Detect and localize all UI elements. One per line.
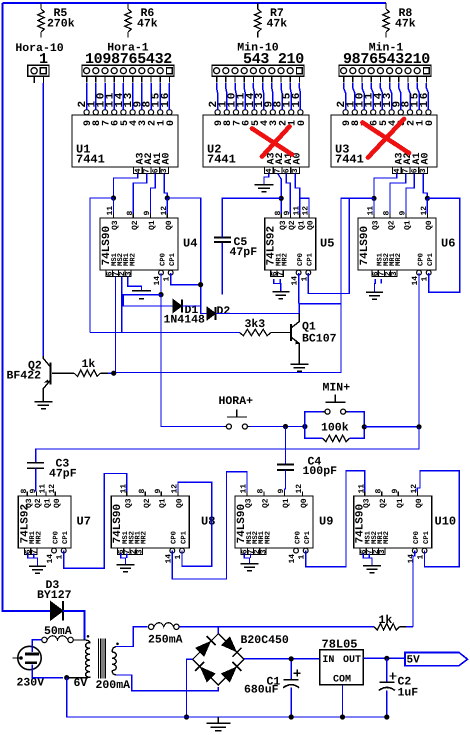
svg-text:16: 16 xyxy=(291,91,303,107)
svg-text:Q1: Q1 xyxy=(396,498,405,508)
resistor R7 xyxy=(257,3,259,9)
svg-text:CP0: CP0 xyxy=(294,531,302,544)
svg-text:CP0: CP0 xyxy=(417,253,425,266)
svg-text:BF422: BF422 xyxy=(7,370,42,383)
svg-text:IN: IN xyxy=(322,655,334,666)
svg-text:MR2: MR2 xyxy=(129,253,137,266)
svg-text:Q2: Q2 xyxy=(131,220,140,230)
ground U10 xyxy=(363,554,372,566)
svg-text:200mA: 200mA xyxy=(96,679,131,692)
wire MIN+ node to U6.CP0 line xyxy=(364,426,419,428)
wire U4.CP0 node xyxy=(160,273,162,295)
IC U7 74LS92 xyxy=(18,496,71,548)
node MIN+ / minute bus junction xyxy=(416,424,421,429)
svg-text:MR2: MR2 xyxy=(395,253,403,266)
wire U1.A0 to U4.Q0 xyxy=(164,174,167,199)
wire D3 cathode to primary top node xyxy=(63,611,84,640)
node C5 bus / U5.Q3 xyxy=(279,196,284,201)
svg-text:Q0: Q0 xyxy=(307,220,316,230)
wire U4.CP0 to HORA+ button xyxy=(161,295,224,427)
resistor R8 xyxy=(385,3,387,9)
svg-text:MIN+: MIN+ xyxy=(323,382,351,395)
svg-text:4: 4 xyxy=(265,168,274,173)
IC U3 7441 xyxy=(331,115,437,167)
svg-text:Q1: Q1 xyxy=(159,498,168,508)
svg-text:Q2: Q2 xyxy=(388,220,397,230)
svg-text:Q1: Q1 xyxy=(297,220,306,230)
svg-text:14: 14 xyxy=(288,554,297,564)
svg-text:16: 16 xyxy=(160,91,172,107)
wire minute bus xyxy=(36,427,419,463)
svg-text:47k: 47k xyxy=(137,18,158,31)
svg-text:CP1: CP1 xyxy=(427,252,435,266)
wire set line to 3k3 xyxy=(90,332,240,334)
svg-text:Q2: Q2 xyxy=(379,498,388,508)
diode D2 1N4148 xyxy=(207,307,216,320)
svg-text:HORA+: HORA+ xyxy=(219,395,254,408)
wire C5 to U4.CP0 node xyxy=(221,242,223,295)
svg-text:1k: 1k xyxy=(379,614,393,627)
svg-text:47k: 47k xyxy=(267,18,288,31)
node 78L05 OUT junction xyxy=(384,656,389,661)
ground symbol on bus xyxy=(217,717,219,723)
ground U9 xyxy=(244,554,249,564)
transistor Q1 BC107 xyxy=(290,324,292,341)
svg-text:CP0: CP0 xyxy=(52,531,60,544)
wire U4.MR2 to ground xyxy=(128,277,142,291)
svg-text:CP0: CP0 xyxy=(413,531,421,544)
svg-text:7441: 7441 xyxy=(207,153,236,167)
svg-text:U7: U7 xyxy=(77,515,91,529)
wire C4 bottom to U9.Q1 xyxy=(285,470,286,492)
svg-text:100k: 100k xyxy=(321,422,349,435)
red X over U2 xyxy=(252,127,292,157)
svg-text:Q0: Q0 xyxy=(300,498,309,508)
resistor 3k3 xyxy=(271,332,290,334)
wire U3.A0 to U6.Q0 xyxy=(423,174,427,199)
wire U2.A3 to ground xyxy=(264,174,269,185)
svg-text:9: 9 xyxy=(29,489,38,494)
svg-text:3: 3 xyxy=(378,549,387,554)
wire U6.Q3 branch to U5.CP1 cascade xyxy=(308,198,349,293)
ground U8 xyxy=(121,554,126,565)
svg-text:CP1: CP1 xyxy=(180,530,188,544)
wire U1.A2 to U4.Q2 xyxy=(133,174,146,214)
svg-text:3: 3 xyxy=(136,549,145,554)
wire HV top bus xyxy=(3,2,387,4)
ground U7 xyxy=(28,554,38,567)
svg-text:Q0: Q0 xyxy=(425,220,434,230)
capacitor C1 680uF xyxy=(290,659,292,680)
svg-text:4: 4 xyxy=(393,168,402,173)
resistor 1k (Q2 base) xyxy=(52,372,74,374)
wire C5 top to U5.Q3 bus xyxy=(222,198,281,237)
svg-text:U6: U6 xyxy=(441,237,455,251)
wire U3.A3 to U6.Q3 xyxy=(374,174,397,199)
wire U1.A3 to U4.Q3 xyxy=(114,174,138,199)
resistor 1k (50 Hz feed) xyxy=(374,624,399,630)
capacitor C4 100pF xyxy=(277,465,294,471)
wire U9.Q3 to U8.CP0 cascade xyxy=(172,472,247,579)
ground Q1 emitter xyxy=(290,364,308,371)
wire U1.A1 to U4.Q1 xyxy=(151,174,156,214)
bridge diode top-right xyxy=(221,636,237,652)
wire U4.CP1 to Q0 feedback line xyxy=(171,273,201,285)
svg-text:Q1: Q1 xyxy=(282,498,291,508)
svg-text:Q2: Q2 xyxy=(262,498,271,508)
svg-text:8: 8 xyxy=(138,489,147,494)
svg-text:CP1: CP1 xyxy=(62,530,70,544)
svg-text:1N4148: 1N4148 xyxy=(164,314,206,327)
wire U2.A0 to U5.Q1 xyxy=(295,174,300,214)
wire U8.Q3 to U7.CP1 cascade xyxy=(64,474,127,569)
svg-text:A0: A0 xyxy=(162,152,173,164)
svg-text:Q0: Q0 xyxy=(176,498,185,508)
wire U10.CP0 to 1k 50Hz xyxy=(413,551,415,627)
wire U10.Q0 to U10.CP1 feedback xyxy=(417,471,459,567)
svg-text:3: 3 xyxy=(160,168,169,173)
bridge diode top-left xyxy=(195,641,211,657)
svg-text:7: 7 xyxy=(277,271,286,276)
wires Min-10 to U2 xyxy=(217,83,218,110)
IC U8 74LS90 xyxy=(111,496,189,548)
IC U1 7441 xyxy=(72,115,178,167)
ground U6 xyxy=(374,279,377,292)
node 6V junction xyxy=(64,675,69,680)
svg-text:6: 6 xyxy=(151,168,160,173)
svg-text:5V: 5V xyxy=(407,655,421,667)
wire C3 bottom to U7.Q2 xyxy=(35,468,37,491)
svg-text:3: 3 xyxy=(390,271,399,276)
svg-text:U5: U5 xyxy=(320,237,334,251)
svg-text:7: 7 xyxy=(274,168,283,173)
svg-text:7441: 7441 xyxy=(76,153,105,167)
wires Hora-1 to U1 xyxy=(86,83,88,110)
svg-text:1k: 1k xyxy=(82,358,96,371)
svg-text:680uF: 680uF xyxy=(244,684,279,697)
svg-text:0: 0 xyxy=(425,120,436,126)
red X over U3 xyxy=(363,119,410,158)
svg-text:Q2: Q2 xyxy=(288,220,297,230)
wire U2.A1 to U5.Q2 xyxy=(286,174,290,214)
svg-text:Q3: Q3 xyxy=(111,220,120,230)
svg-text:270k: 270k xyxy=(47,18,75,31)
svg-text:CP1: CP1 xyxy=(169,252,177,266)
svg-text:U10: U10 xyxy=(435,515,457,529)
svg-text:8: 8 xyxy=(257,489,266,494)
wire bridge right vertex DC+ xyxy=(244,658,320,660)
svg-text:3k3: 3k3 xyxy=(245,318,266,331)
wire D2 cathode to Q1 collector xyxy=(216,313,300,315)
wire bridge top vertex xyxy=(217,627,219,634)
ground U2.A3 xyxy=(255,185,274,192)
bridge diode bottom-right xyxy=(221,666,237,682)
node MIN+/100k left junction xyxy=(302,424,307,429)
wire U4.MS2 to Q2 base node xyxy=(115,277,117,373)
wire bridge left vertex to ground bus xyxy=(187,659,193,717)
svg-text:7441: 7441 xyxy=(335,153,364,167)
wire Q1 emitter to ground xyxy=(298,353,300,365)
diode D1 1N4148 xyxy=(173,299,182,312)
svg-text:BY127: BY127 xyxy=(37,589,72,602)
wire D1 cathode to D2 anode xyxy=(182,306,207,314)
wire U8.Q0 to U8.CP1 feedback xyxy=(178,482,212,566)
svg-text:12: 12 xyxy=(295,484,304,494)
IC U2 7441 xyxy=(203,115,309,167)
svg-text:A0: A0 xyxy=(421,152,432,164)
wire U5.Q0 feedback to U5.CP1 xyxy=(300,198,309,213)
wire U10.Q3 to U9.CP1 cascade xyxy=(306,471,365,567)
5V output tag xyxy=(405,653,468,666)
wire C4 top xyxy=(285,427,287,465)
node bridge DC- on ground bus xyxy=(184,714,189,719)
wire MIN+ loop left xyxy=(305,412,323,427)
node U3.A3/U6.Q3 junction xyxy=(371,196,376,201)
capacitor C2 1uF xyxy=(386,658,388,682)
node U4.CP1 junction xyxy=(198,282,203,287)
wire 6V node to ground bus xyxy=(67,678,187,717)
resistor R6 xyxy=(127,3,129,9)
svg-text:Q1: Q1 xyxy=(148,220,157,230)
svg-text:9: 9 xyxy=(154,489,163,494)
resistor 100k xyxy=(305,427,323,439)
svg-text:1uF: 1uF xyxy=(398,687,419,700)
svg-text:8: 8 xyxy=(374,489,383,494)
svg-text:0: 0 xyxy=(297,120,308,126)
svg-text:47pF: 47pF xyxy=(49,468,77,481)
svg-text:Q3: Q3 xyxy=(279,220,288,230)
svg-text:47k: 47k xyxy=(395,18,416,31)
svg-text:U9: U9 xyxy=(319,515,333,529)
wire 250mA fuse to bridge top and 1k xyxy=(179,626,374,628)
svg-text:14: 14 xyxy=(46,554,55,564)
node 100k/MIN+ right junction xyxy=(362,424,367,429)
transformer T1 xyxy=(67,640,90,678)
mains plug 230V xyxy=(18,646,41,669)
svg-text:Q3: Q3 xyxy=(245,498,254,508)
wire U6.Q3 to set-line vertical xyxy=(114,198,374,372)
svg-text:12: 12 xyxy=(48,484,57,494)
svg-text:B20C450: B20C450 xyxy=(241,634,289,647)
IC U4 74LS90 xyxy=(100,218,178,270)
wire U3.A1 to U6.Q1 xyxy=(406,174,414,214)
IC U9 74LS90 xyxy=(235,496,313,548)
wire HORA+ to node xyxy=(249,426,305,428)
svg-text:3: 3 xyxy=(259,549,268,554)
svg-text:Q2: Q2 xyxy=(34,498,43,508)
ground U4 xyxy=(132,291,151,299)
wire plug top pin to fuse xyxy=(32,640,42,652)
capacitor C3 47pF xyxy=(27,463,44,469)
wire Q2 collector to Hora-10 pin xyxy=(42,83,44,356)
svg-text:U4: U4 xyxy=(183,237,197,251)
svg-text:MR2: MR2 xyxy=(141,531,149,544)
svg-text:74LS90: 74LS90 xyxy=(359,226,371,266)
svg-text:4: 4 xyxy=(134,168,143,173)
svg-text:47pF: 47pF xyxy=(230,246,258,259)
svg-text:250mA: 250mA xyxy=(148,634,183,647)
IC U10 74LS90 xyxy=(354,496,432,548)
transistor Q2 BF422 xyxy=(49,363,51,385)
svg-text:CP0: CP0 xyxy=(171,531,179,544)
svg-text:MR2: MR2 xyxy=(383,531,391,544)
node U1.A0/U4.Q0 junction xyxy=(165,195,170,200)
wire Q2 emitter to ground xyxy=(42,398,44,402)
svg-text:16: 16 xyxy=(419,91,431,107)
node U4.CP0 junction xyxy=(158,292,163,297)
svg-text:CP0: CP0 xyxy=(297,253,305,266)
wire U5.CP0 down to Q1 collector node xyxy=(298,273,300,304)
svg-text:230V: 230V xyxy=(17,677,45,690)
wire U3.A2 to U6.Q2 xyxy=(390,174,406,214)
svg-text:100pF: 100pF xyxy=(303,465,338,478)
bridge diode bottom-left xyxy=(200,666,216,682)
svg-text:MR2: MR2 xyxy=(282,253,290,266)
svg-text:CP0: CP0 xyxy=(159,253,167,266)
svg-text:Q3: Q3 xyxy=(362,498,371,508)
svg-text:Q0: Q0 xyxy=(165,220,174,230)
wire 78L05 OUT xyxy=(363,657,404,659)
svg-text:Q3: Q3 xyxy=(372,220,381,230)
capacitor C5 47pF xyxy=(214,238,231,243)
svg-text:Q1: Q1 xyxy=(44,498,53,508)
wire Q0 node to U4 feedback xyxy=(167,198,200,314)
node Q2 base / 1k junction xyxy=(108,372,114,374)
wire 78L05 COM to ground bus xyxy=(342,685,344,717)
node U3.A0/U6.Q0 junction xyxy=(425,196,430,201)
svg-text:6V: 6V xyxy=(74,677,88,690)
svg-text:3: 3 xyxy=(124,271,133,276)
svg-text:Q3: Q3 xyxy=(124,498,133,508)
svg-text:Q0: Q0 xyxy=(53,498,62,508)
wire Q1 collector to set line xyxy=(299,303,341,305)
svg-text:COM: COM xyxy=(333,675,351,686)
svg-text:8: 8 xyxy=(20,489,29,494)
svg-text:D2: D2 xyxy=(217,305,231,318)
wire secondary top to 250mA fuse xyxy=(116,627,148,647)
svg-text:7: 7 xyxy=(143,168,152,173)
svg-text:CP1: CP1 xyxy=(307,252,315,266)
svg-text:Q0: Q0 xyxy=(415,498,424,508)
svg-text:Q3: Q3 xyxy=(25,498,34,508)
wire U2.A2 to U5.Q3 xyxy=(278,174,282,214)
svg-text:Q2: Q2 xyxy=(143,498,152,508)
svg-text:50mA: 50mA xyxy=(44,625,72,638)
svg-text:MR2: MR2 xyxy=(264,531,272,544)
wire Q3 node to set line xyxy=(90,198,114,333)
svg-text:6: 6 xyxy=(410,168,419,173)
wire plug bottom pin to 6V node xyxy=(32,665,63,678)
wire U4.MR1 to set line xyxy=(121,277,123,333)
node U1.A3/U4.Q3 junction xyxy=(111,195,116,200)
svg-text:MR2: MR2 xyxy=(35,531,43,544)
svg-text:OUT: OUT xyxy=(343,655,361,666)
svg-text:3: 3 xyxy=(291,168,300,173)
svg-text:BC107: BC107 xyxy=(302,333,337,346)
svg-text:11: 11 xyxy=(39,484,48,494)
ground U5 xyxy=(274,279,281,292)
ground bus bottom xyxy=(67,716,387,718)
wire U6.CP0 to MIN+ node xyxy=(418,273,420,427)
wires Min-1 to U3 xyxy=(344,83,346,110)
bridge rectifier B20C450 xyxy=(193,634,244,685)
IC U5 74LS92 xyxy=(265,218,316,270)
wire left border (HV to D3) xyxy=(3,3,51,611)
wire U6.Q0 to U6.CP1 feedback xyxy=(427,198,459,292)
wire Q1 collector up xyxy=(298,304,300,314)
ground Q2 emitter xyxy=(34,402,52,409)
svg-text:7: 7 xyxy=(402,168,411,173)
IC U6 74LS90 xyxy=(358,218,436,270)
svg-text:U8: U8 xyxy=(201,515,215,529)
svg-text:CP1: CP1 xyxy=(423,530,431,544)
svg-text:6: 6 xyxy=(282,168,291,173)
svg-text:Q1: Q1 xyxy=(404,220,413,230)
svg-text:CP1: CP1 xyxy=(304,530,312,544)
svg-text:3: 3 xyxy=(419,168,428,173)
node C4 junction xyxy=(283,424,288,429)
resistor R5 xyxy=(40,3,42,9)
svg-text:7: 7 xyxy=(30,549,39,554)
svg-text:0: 0 xyxy=(166,120,177,126)
svg-text:9: 9 xyxy=(391,489,400,494)
wire MIN+ loop right xyxy=(348,412,365,427)
wire U4.CP0 to D1 anode xyxy=(123,295,173,306)
wire secondary bottom to bridge bottom vertex xyxy=(116,675,218,691)
